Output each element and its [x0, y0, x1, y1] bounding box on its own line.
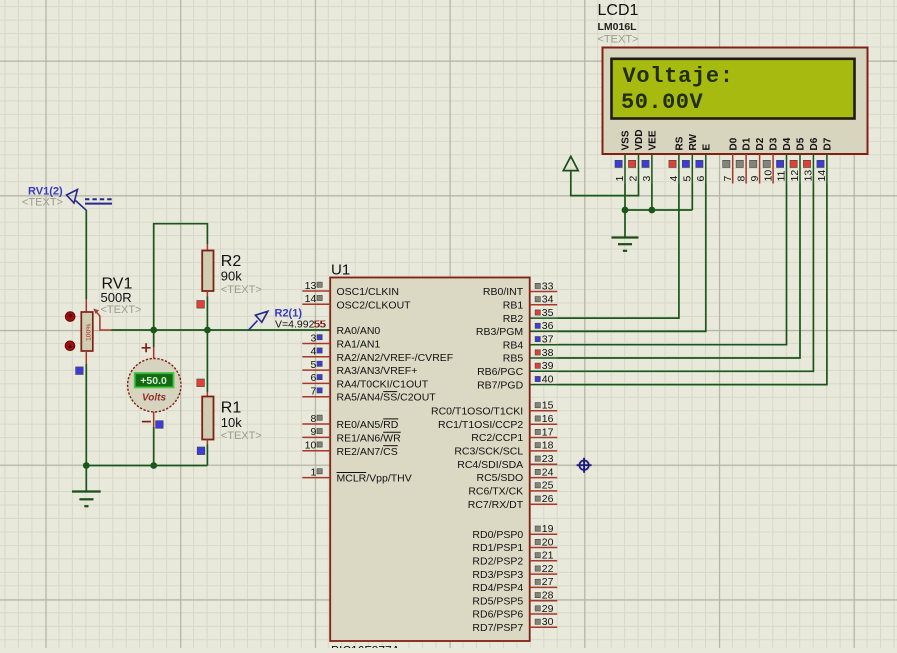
LCD screen — [612, 59, 855, 119]
svg-text:17: 17 — [542, 426, 554, 438]
svg-text:<TEXT>: <TEXT> — [598, 34, 639, 46]
svg-text:RA3/AN3/VREF+: RA3/AN3/VREF+ — [337, 365, 418, 377]
U1 pin 36 (RB3/PGM) — [476, 320, 557, 338]
svg-text:22: 22 — [542, 563, 554, 575]
junction at pot/ground — [83, 462, 90, 469]
R2 logic-state square — [197, 301, 205, 309]
svg-text:Volts: Volts — [142, 392, 167, 403]
wire R2 bottom to node — [206, 297, 208, 331]
U1 pin 39 (RB6/PGC) — [477, 360, 557, 378]
svg-text:RB6/PGC: RB6/PGC — [477, 366, 524, 378]
svg-text:24: 24 — [542, 466, 554, 478]
svg-text:18: 18 — [542, 440, 554, 452]
svg-text:RA1/AN1: RA1/AN1 — [337, 339, 381, 351]
svg-text:RD3/PSP3: RD3/PSP3 — [472, 569, 523, 581]
junction node at wiper — [150, 327, 157, 334]
LCD1 pin 12 (D5) — [789, 137, 806, 183]
wire VSS down — [624, 184, 626, 211]
svg-text:RE2/AN7/CS: RE2/AN7/CS — [337, 446, 398, 458]
svg-text:9: 9 — [310, 426, 316, 438]
svg-text:VSS: VSS — [621, 130, 632, 150]
svg-text:RB5: RB5 — [503, 353, 524, 365]
svg-text:13: 13 — [305, 280, 317, 292]
svg-text:RC4/SDI/SDA: RC4/SDI/SDA — [457, 459, 523, 471]
ground rail wire — [86, 465, 207, 467]
wire RV1 bottom to ground rail — [85, 364, 87, 466]
svg-text:37: 37 — [542, 334, 554, 346]
wire power to VDD — [571, 171, 639, 196]
svg-text:RA5/AN4/SS/C2OUT: RA5/AN4/SS/C2OUT — [337, 392, 437, 404]
svg-text:8: 8 — [735, 176, 747, 182]
RV1 bottom logic-state square — [76, 367, 84, 375]
svg-text:20: 20 — [542, 536, 554, 548]
U1 pin 25 (RC6/TX/CK) — [468, 480, 557, 498]
svg-text:RW: RW — [688, 133, 699, 150]
svg-text:MCLR/Vpp/THV: MCLR/Vpp/THV — [337, 473, 412, 485]
potentiometer RV1 — [65, 276, 141, 365]
wire node to R1 top — [206, 330, 208, 392]
svg-text:10: 10 — [305, 440, 317, 452]
svg-text:RD0/PSP0: RD0/PSP0 — [472, 529, 523, 541]
svg-text:RB7/PGD: RB7/PGD — [477, 379, 524, 391]
resistor R1 — [202, 330, 262, 445]
svg-text:RB4: RB4 — [503, 339, 524, 351]
svg-text:D5: D5 — [796, 137, 807, 150]
IC U1 PIC16F877A body — [330, 262, 530, 653]
R1 top logic-state square — [197, 379, 205, 387]
U1 pin 1 (MCLR) — [302, 466, 411, 484]
svg-text:36: 36 — [542, 320, 554, 332]
junction VSS/ground — [622, 207, 629, 214]
wire node to PIC RA0 — [154, 329, 330, 331]
U1 pin 40 (RB7/PGD) — [477, 373, 557, 391]
svg-text:35: 35 — [542, 307, 554, 319]
svg-text:R1: R1 — [221, 399, 242, 416]
U1 pin 15 (RC0/T1OSO/T1CKI) — [431, 400, 557, 418]
wire RB3 to LCD E — [557, 184, 706, 332]
voltage probe R2(1) — [249, 307, 327, 330]
svg-text:19: 19 — [542, 523, 554, 535]
svg-text:3: 3 — [641, 176, 653, 182]
LCD1 pin 13 (D6) — [803, 137, 820, 183]
svg-text:7: 7 — [722, 176, 734, 182]
U1 pin 33 (RB0/INT) — [483, 280, 557, 298]
LCD1 pin 4 (RS) — [668, 136, 685, 183]
svg-text:RC2/CCP1: RC2/CCP1 — [471, 432, 523, 444]
svg-text:RB3/PGM: RB3/PGM — [476, 326, 523, 338]
svg-text:VEE: VEE — [648, 130, 659, 150]
ground (LCD) — [612, 210, 639, 251]
LCD1 pin 14 (D7) — [816, 137, 833, 183]
voltage probe RV1(2) — [22, 186, 112, 211]
LCD1 pin 11 (D4) — [776, 137, 793, 183]
U1 pin 35 (RB2) — [503, 307, 557, 325]
U1 pin 14 (OSC2) — [302, 293, 411, 311]
svg-text:RA0/AN0: RA0/AN0 — [337, 325, 381, 337]
svg-text:<TEXT>: <TEXT> — [221, 430, 262, 442]
resistor R2 — [202, 244, 262, 297]
U1 pin 18 (RC3/SCK/SCL) — [454, 440, 557, 458]
LCD LCD1 body — [603, 48, 868, 155]
svg-text:33: 33 — [542, 280, 554, 292]
U1 pin 17 (RC2/CCP1) — [471, 426, 557, 444]
svg-text:RC6/TX/CK: RC6/TX/CK — [468, 486, 523, 498]
LCD1 pin 2 (VDD) — [628, 129, 645, 183]
wire RB7 to LCD D7 — [557, 184, 827, 385]
wire RB4 to LCD D4 — [557, 184, 786, 345]
U1 pin 27 (RD4/PSP4) — [472, 576, 557, 594]
svg-text:+50.0: +50.0 — [140, 375, 167, 387]
wire RB6 to LCD D6 — [557, 184, 813, 372]
svg-text:D1: D1 — [742, 137, 753, 150]
svg-text:D0: D0 — [728, 137, 739, 150]
U1 pin 3 (RA1) — [302, 332, 380, 350]
ground (left) — [72, 466, 101, 507]
R1 bottom logic-state square — [197, 447, 205, 455]
svg-text:RD6/PSP6: RD6/PSP6 — [472, 609, 523, 621]
U1 pin 20 (RD1/PSP1) — [472, 536, 557, 554]
svg-text:27: 27 — [542, 576, 554, 588]
svg-text:9: 9 — [749, 176, 761, 182]
wire VEE down — [651, 184, 653, 211]
U1 pin 4 (RA2) — [302, 346, 453, 364]
svg-text:U1: U1 — [331, 262, 350, 279]
wire voltmeter to rail — [153, 427, 155, 466]
svg-text:LM016L: LM016L — [598, 21, 638, 33]
junction VEE — [649, 207, 656, 214]
U1 pin 13 (OSC1) — [302, 280, 399, 298]
LCD1 pin 9 (D2) — [749, 137, 766, 183]
svg-text:RC0/T1OSO/T1CKI: RC0/T1OSO/T1CKI — [431, 406, 523, 418]
svg-text:6: 6 — [310, 372, 316, 384]
svg-text:4: 4 — [310, 346, 316, 358]
svg-text:26: 26 — [542, 493, 554, 505]
U1 pin 37 (RB4) — [503, 334, 557, 352]
U1 pin 9 (RE1) — [302, 426, 401, 444]
svg-text:5: 5 — [682, 176, 694, 182]
svg-text:RE1/AN6/WR: RE1/AN6/WR — [337, 432, 402, 444]
U1 pin 22 (RD3/PSP3) — [472, 563, 557, 581]
svg-text:Voltaje:: Voltaje: — [623, 64, 734, 89]
U1 pin 28 (RD5/PSP5) — [472, 590, 557, 608]
svg-text:RB2: RB2 — [503, 313, 524, 325]
svg-text:RD2/PSP2: RD2/PSP2 — [472, 556, 523, 568]
svg-text:55: 55 — [314, 319, 326, 331]
U1 pin 19 (RD0/PSP0) — [472, 523, 557, 541]
LCD1 pin 6 (E) — [695, 144, 712, 184]
svg-text:RC7/RX/DT: RC7/RX/DT — [468, 499, 524, 511]
svg-text:1: 1 — [614, 176, 626, 182]
wire RV1 wiper to node — [112, 329, 154, 331]
svg-text:LCD1: LCD1 — [598, 2, 639, 19]
svg-text:E: E — [701, 144, 712, 151]
svg-text:50.00V: 50.00V — [621, 90, 704, 115]
svg-text:RD5/PSP5: RD5/PSP5 — [472, 595, 523, 607]
svg-text:11: 11 — [776, 170, 788, 181]
LCD1 pin 5 (RW) — [682, 133, 699, 183]
svg-text:29: 29 — [542, 603, 554, 615]
LCD1 pin 1 (VSS) — [614, 130, 631, 183]
svg-text:D6: D6 — [809, 137, 820, 150]
U1 pin 2 (RA0) — [337, 325, 381, 337]
U1 pin 7 (RA5) — [302, 386, 436, 404]
svg-text:14: 14 — [816, 170, 828, 182]
svg-text:RC1/T1OSI/CCP2: RC1/T1OSI/CCP2 — [438, 419, 523, 431]
U1 pin 5 (RA3) — [302, 359, 417, 377]
U1 pin 26 (RC7/RX/DT) — [468, 493, 557, 511]
svg-text:13: 13 — [803, 170, 815, 182]
svg-text:90k: 90k — [221, 268, 242, 283]
svg-text:R2(1): R2(1) — [275, 307, 303, 319]
cursor crosshair — [577, 458, 592, 473]
power terminal — [563, 156, 578, 170]
svg-text:8: 8 — [310, 413, 316, 425]
wire ground bus — [625, 209, 692, 211]
LCD1 pin 7 (D0) — [722, 137, 739, 183]
svg-text:D7: D7 — [823, 137, 834, 150]
svg-text:<TEXT>: <TEXT> — [22, 197, 63, 209]
svg-text:RD7/PSP7: RD7/PSP7 — [472, 622, 523, 634]
svg-text:38: 38 — [542, 347, 554, 359]
svg-text:500R: 500R — [101, 290, 132, 305]
svg-text:3: 3 — [310, 332, 316, 344]
svg-text:14: 14 — [305, 293, 317, 305]
wire RB5 to LCD D5 — [557, 184, 800, 359]
svg-text:40: 40 — [542, 373, 554, 385]
svg-text:OSC1/CLKIN: OSC1/CLKIN — [337, 286, 399, 298]
svg-text:VDD: VDD — [634, 129, 645, 150]
svg-text:<TEXT>: <TEXT> — [221, 284, 262, 296]
U1 pin 30 (RD7/PSP7) — [472, 616, 557, 634]
svg-text:7: 7 — [310, 386, 316, 398]
svg-text:5: 5 — [310, 359, 316, 371]
svg-text:23: 23 — [542, 453, 554, 465]
svg-text:10: 10 — [762, 170, 774, 182]
wire RB2 to LCD RS — [557, 184, 679, 319]
svg-text:D4: D4 — [782, 137, 793, 150]
svg-text:RA2/AN2/VREF-/CVREF: RA2/AN2/VREF-/CVREF — [337, 352, 454, 364]
voltmeter minus logic-state square — [156, 421, 164, 429]
wire probe to RV1 top — [85, 210, 87, 299]
svg-text:6: 6 — [695, 176, 707, 182]
wire over R2 (node up and across) — [154, 224, 208, 330]
svg-text:28: 28 — [542, 590, 554, 602]
svg-text:12: 12 — [789, 170, 801, 182]
U1 pin 10 (RE2) — [302, 440, 398, 458]
junction at voltmeter bottom — [150, 462, 157, 469]
svg-text:2: 2 — [628, 176, 640, 182]
svg-text:R2: R2 — [221, 253, 242, 270]
U1 pin 29 (RD6/PSP6) — [472, 603, 557, 621]
svg-text:100%: 100% — [85, 324, 92, 341]
svg-text:D3: D3 — [769, 137, 780, 150]
U1 pin 34 (RB1) — [503, 294, 557, 312]
svg-text:RS: RS — [675, 136, 686, 150]
junction node at R2/R1 — [204, 327, 211, 334]
svg-text:RC3/SCK/SCL: RC3/SCK/SCL — [454, 446, 523, 458]
svg-text:34: 34 — [542, 294, 554, 306]
svg-text:16: 16 — [542, 413, 554, 425]
svg-text:21: 21 — [542, 550, 554, 562]
svg-text:30: 30 — [542, 616, 554, 628]
LCD LCD1 labels — [598, 2, 639, 46]
svg-text:RC5/SDO: RC5/SDO — [477, 472, 524, 484]
svg-text:25: 25 — [542, 480, 554, 492]
svg-text:OSC2/CLKOUT: OSC2/CLKOUT — [337, 299, 412, 311]
svg-text:RB0/INT: RB0/INT — [483, 286, 524, 298]
U1 pin 38 (RB5) — [503, 347, 557, 365]
svg-text:15: 15 — [542, 400, 554, 412]
wire RW down — [691, 184, 693, 211]
LCD1 pin 3 (VEE) — [641, 130, 658, 183]
LCD1 pin 10 (D3) — [762, 137, 779, 183]
U1 pin 6 (RA4) — [302, 372, 428, 390]
voltmeter — [128, 330, 181, 427]
U1 pin 8 (RE0) — [302, 413, 398, 431]
U1 pin 21 (RD2/PSP2) — [472, 550, 557, 568]
wire R1 bottom to rail — [206, 445, 208, 466]
svg-text:RA4/T0CKI/C1OUT: RA4/T0CKI/C1OUT — [337, 378, 429, 390]
LCD1 pin 8 (D1) — [735, 137, 752, 183]
svg-text:10k: 10k — [221, 415, 242, 430]
svg-text:<TEXT>: <TEXT> — [101, 304, 142, 316]
svg-text:4: 4 — [668, 176, 680, 182]
svg-text:RB1: RB1 — [503, 300, 524, 312]
svg-text:RD4/PSP4: RD4/PSP4 — [472, 582, 523, 594]
U1 pin 16 (RC1/T1OSI/CCP2) — [438, 413, 557, 431]
U1 pin 23 (RC4/SDI/SDA) — [457, 453, 557, 471]
svg-text:RD1/PSP1: RD1/PSP1 — [472, 542, 523, 554]
svg-text:1: 1 — [310, 466, 316, 478]
svg-text:39: 39 — [542, 360, 554, 372]
svg-text:PIC16F877A: PIC16F877A — [331, 643, 400, 648]
svg-text:D2: D2 — [755, 137, 766, 150]
svg-text:RE0/AN5/RD: RE0/AN5/RD — [337, 419, 399, 431]
U1 pin 24 (RC5/SDO) — [477, 466, 558, 484]
